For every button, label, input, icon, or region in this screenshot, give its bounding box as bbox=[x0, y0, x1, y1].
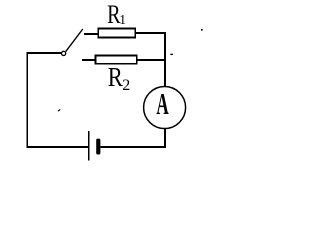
svg-text:1: 1 bbox=[119, 12, 126, 27]
svg-text:A: A bbox=[156, 88, 168, 121]
svg-text:R: R bbox=[108, 63, 123, 92]
svg-text:2: 2 bbox=[122, 77, 130, 94]
